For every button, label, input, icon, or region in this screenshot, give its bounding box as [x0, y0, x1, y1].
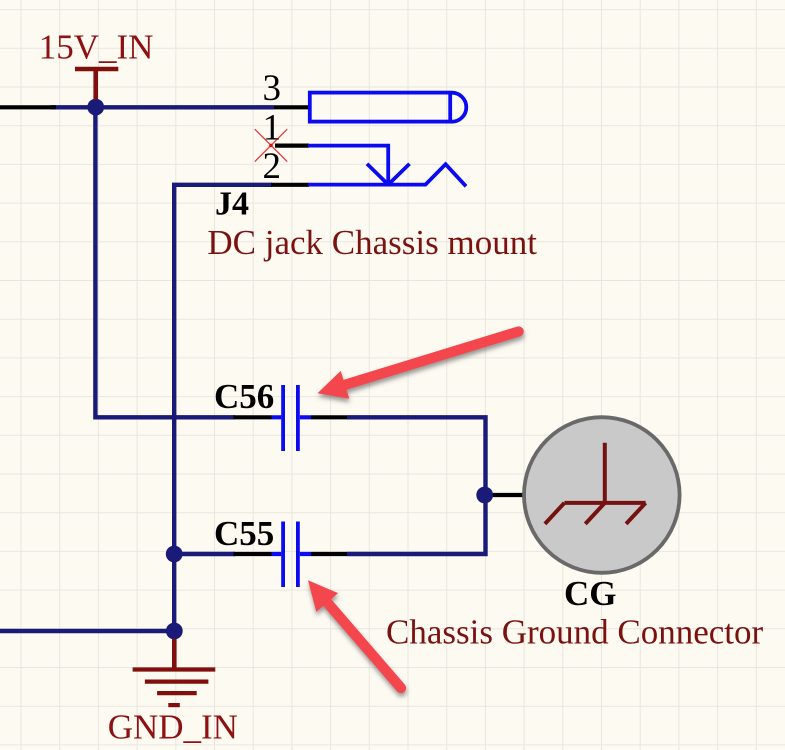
svg-text:Chassis Ground Connector: Chassis Ground Connector: [386, 613, 764, 652]
svg-text:15V_IN: 15V_IN: [39, 28, 154, 67]
svg-text:GND_IN: GND_IN: [108, 708, 238, 747]
svg-text:C55: C55: [214, 514, 274, 553]
svg-text:1: 1: [263, 108, 282, 149]
svg-text:DC jack Chassis mount: DC jack Chassis mount: [207, 223, 537, 262]
svg-text:C56: C56: [214, 377, 274, 416]
svg-text:2: 2: [263, 146, 282, 187]
svg-text:CG: CG: [564, 574, 617, 613]
svg-text:J4: J4: [215, 186, 249, 223]
svg-text:3: 3: [263, 68, 282, 109]
